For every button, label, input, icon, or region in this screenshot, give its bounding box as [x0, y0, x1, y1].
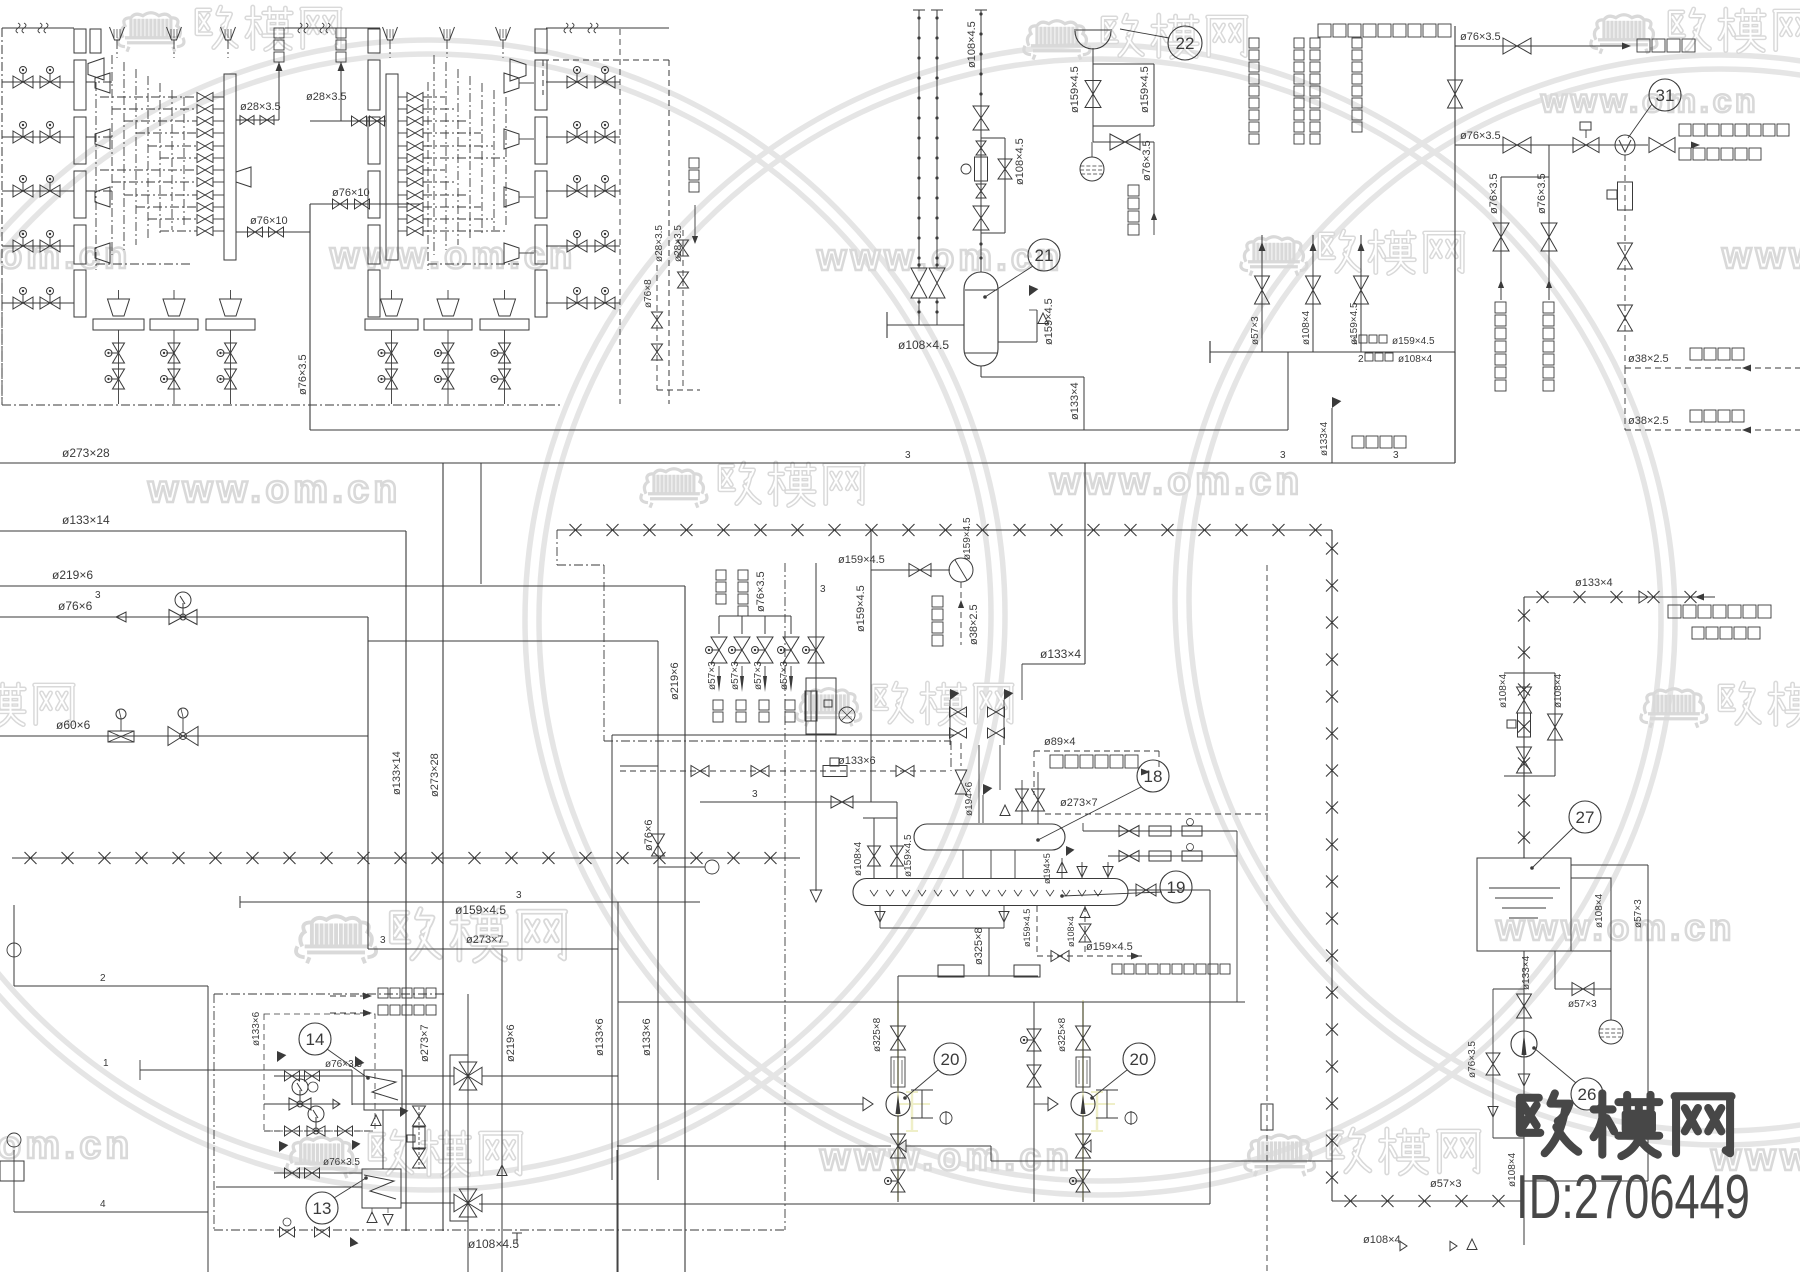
block B dashed border	[668, 60, 670, 404]
circle 20a	[934, 1043, 966, 1075]
svg-text:www.om.cn: www.om.cn	[1049, 460, 1303, 503]
svg-text:ø159×4.5: ø159×4.5	[455, 903, 506, 917]
273x7 dashed	[1045, 813, 1268, 815]
block B funnels	[510, 59, 526, 81]
pump1	[886, 1092, 910, 1116]
circle 21	[1028, 239, 1060, 271]
svg-text:3: 3	[1280, 450, 1286, 461]
bottom dashed row	[280, 1227, 295, 1237]
pump2 tee	[1106, 1090, 1108, 1118]
block A inner header bar 2	[90, 29, 101, 53]
fourway valves	[454, 1062, 482, 1090]
svg-text:ø57×3: ø57×3	[753, 661, 764, 690]
159x4.5 vertical	[870, 530, 872, 802]
line into pump discharge	[617, 1145, 891, 1147]
svg-text:18: 18	[1144, 767, 1163, 786]
hx18-hx19 connectors	[962, 850, 964, 879]
xline y858	[12, 857, 800, 859]
pump2 yellow lines	[1082, 1000, 1084, 1200]
heater 14 aux	[264, 1103, 340, 1105]
funnel between blocks	[236, 167, 251, 187]
line 76x6	[0, 616, 368, 618]
svg-text:3: 3	[820, 584, 826, 595]
svg-text:ø38×2.5: ø38×2.5	[968, 604, 980, 645]
svg-text:13: 13	[313, 1199, 332, 1218]
svg-text:3: 3	[380, 935, 386, 946]
line 133x14	[0, 530, 406, 532]
fuel oil tracing line	[1455, 144, 1648, 146]
svg-text:19: 19	[1167, 878, 1186, 897]
to expander arrows	[363, 993, 372, 1000]
dome 22	[1074, 30, 1112, 49]
svg-text:ø133×4: ø133×4	[1040, 647, 1081, 661]
svg-text:ø38×2.5: ø38×2.5	[1628, 415, 1669, 427]
circle 20b	[1123, 1043, 1155, 1075]
svg-text:ø108×4: ø108×4	[853, 841, 864, 876]
svg-text:ø57×3: ø57×3	[707, 661, 718, 690]
line 2	[14, 985, 208, 987]
svg-text:ø219×6: ø219×6	[669, 662, 681, 700]
svg-text:ø108×4: ø108×4	[1363, 1234, 1401, 1246]
svg-text:ø108×4: ø108×4	[1498, 673, 1509, 708]
tank 27	[1477, 858, 1571, 951]
svg-text:ø194×5: ø194×5	[1042, 853, 1052, 884]
svg-text:ø133×4: ø133×4	[1521, 955, 1532, 990]
circle 19	[1160, 871, 1192, 903]
heater 13	[362, 1169, 401, 1208]
between-heater valve train	[418, 1107, 420, 1169]
svg-text:ø108×4.5: ø108×4.5	[1014, 138, 1026, 185]
svg-text:ø38×2.5: ø38×2.5	[1628, 353, 1669, 365]
riser labels	[1249, 38, 1259, 48]
block B right header bars	[535, 29, 547, 53]
block A left valve rows	[2, 81, 74, 83]
svg-text:ø159×4.5: ø159×4.5	[962, 517, 973, 560]
svg-text:3: 3	[516, 890, 522, 901]
line 273x28	[0, 462, 443, 464]
inter-block pipe w valves	[236, 231, 310, 233]
circle 22	[1168, 26, 1202, 60]
right main vertical	[1454, 26, 1456, 463]
svg-text:1: 1	[1352, 336, 1358, 347]
line 273x7 mid	[368, 948, 618, 950]
svg-text:ø76×3.5: ø76×3.5	[1460, 31, 1501, 43]
block B inner dashed vertical	[619, 29, 621, 404]
tank drain	[1523, 951, 1525, 1245]
pump discharge cross line	[906, 1145, 991, 1147]
svg-text:ø108×4.5: ø108×4.5	[966, 21, 978, 68]
svg-text:ø108×4.5: ø108×4.5	[898, 338, 949, 352]
svg-text:www.om.cn: www.om.cn	[1495, 907, 1735, 948]
svg-text:ø76×6: ø76×6	[643, 820, 655, 852]
svg-text:21: 21	[1035, 246, 1054, 265]
svg-text:ID:2706449: ID:2706449	[1516, 1162, 1750, 1232]
svg-text:ø76×6: ø76×6	[58, 599, 93, 613]
svg-text:ø108×4: ø108×4	[1301, 310, 1312, 345]
svg-text:ø159×4.5: ø159×4.5	[1022, 909, 1032, 947]
block B right small piping	[694, 205, 696, 236]
xline y1201	[1332, 1200, 1523, 1202]
svg-text:ø57×3: ø57×3	[779, 661, 790, 690]
hx18 flag	[983, 784, 992, 795]
valve loop on riser	[1523, 664, 1525, 673]
vertical 219x6 lower	[501, 949, 503, 1272]
svg-text:ø273×28: ø273×28	[429, 753, 441, 797]
svg-text:4: 4	[100, 1199, 106, 1210]
pump1 yellow lines	[897, 1000, 899, 1200]
block B right valve rows	[546, 81, 620, 83]
svg-text:ø133×4: ø133×4	[1319, 421, 1330, 456]
svg-text:ø133×4: ø133×4	[1575, 577, 1613, 589]
control valve 31	[1615, 135, 1635, 155]
hx19 right outlet	[1128, 889, 1210, 891]
svg-text:ø76×3.5: ø76×3.5	[755, 571, 767, 612]
svg-text:ø57×3: ø57×3	[730, 661, 741, 690]
block A header bars	[74, 29, 86, 53]
svg-text:ø76×3.5: ø76×3.5	[297, 354, 309, 395]
line 60x6	[0, 735, 368, 737]
svg-text:ø273×7: ø273×7	[419, 1024, 431, 1062]
block A valve column	[197, 93, 213, 102]
svg-text:ø76×3.5: ø76×3.5	[323, 1157, 360, 1168]
svg-text:www.om.cn: www.om.cn	[819, 1136, 1073, 1179]
svg-text:ø219×6: ø219×6	[505, 1024, 517, 1062]
svg-text:ø133×6: ø133×6	[594, 1018, 606, 1056]
svg-text:ø108×4: ø108×4	[1553, 673, 1564, 708]
cluster bowties to hx18	[950, 707, 967, 717]
svg-text:3: 3	[752, 789, 758, 800]
block A tall header bar	[224, 74, 236, 260]
atomizing steam dashed branch	[1624, 155, 1626, 368]
unit manifold	[1210, 351, 1455, 353]
left small box	[0, 1161, 24, 1181]
block A dashed border	[1, 28, 3, 404]
svg-text:ø325×8: ø325×8	[973, 927, 985, 965]
block A top header line	[2, 27, 74, 29]
vessel 21 inlet	[886, 312, 888, 338]
mill dashed enclosure	[556, 530, 558, 565]
bypass tall rect	[450, 1055, 468, 1221]
heater inner dashed box	[264, 1014, 375, 1131]
svg-text:ø57×3: ø57×3	[1430, 1178, 1462, 1190]
tank 27b	[1571, 878, 1611, 951]
heater dashed enclosure	[214, 993, 445, 995]
svg-text:3: 3	[1393, 450, 1399, 461]
hx19 vessel	[853, 879, 1128, 906]
svg-text:ø159×4.5: ø159×4.5	[1086, 941, 1133, 953]
dashed vertical 1267	[1266, 565, 1268, 1272]
xline right 133x4	[1524, 596, 1715, 598]
mid dashed row	[264, 1130, 371, 1132]
svg-text:ø273×7: ø273×7	[466, 934, 504, 946]
vert x617	[616, 1150, 618, 1272]
circle 14	[299, 1023, 331, 1055]
drain valve stack 108x4	[1084, 906, 1086, 956]
line 1	[140, 1069, 352, 1071]
xline chem to tank	[1523, 858, 1525, 951]
svg-text:2: 2	[1358, 354, 1364, 365]
condensate valve line	[871, 569, 950, 571]
block A bottom dash line	[2, 404, 560, 406]
circle 27	[1569, 801, 1601, 833]
tank right pipes	[1571, 864, 1648, 866]
loop 22 piping	[1092, 48, 1094, 64]
big logo text	[1520, 1093, 1732, 1156]
dotted standpipe 1	[918, 10, 920, 262]
xline y530	[557, 529, 1332, 531]
pump discharge header	[479, 1203, 1210, 1205]
third extraction	[1287, 352, 1289, 430]
svg-text:ø76×3.5: ø76×3.5	[1467, 1041, 1478, 1078]
svg-text:ø325×8: ø325×8	[1057, 1017, 1068, 1052]
svg-text:ø76×3.5: ø76×3.5	[1536, 173, 1548, 214]
svg-text:ø194×6: ø194×6	[964, 781, 975, 816]
block B tall header bar	[386, 74, 398, 260]
svg-text:ø76×3.5: ø76×3.5	[1488, 173, 1500, 214]
svg-text:ø133×6: ø133×6	[251, 1011, 262, 1046]
pump 26	[1511, 1031, 1537, 1057]
chem steam text	[1318, 24, 1331, 37]
block B dash-dot mesh	[433, 55, 435, 255]
hx18 vessel	[914, 824, 1065, 850]
svg-text:2: 2	[100, 973, 106, 984]
svg-text:ø159×4.5: ø159×4.5	[855, 585, 867, 632]
svg-text:22: 22	[1176, 34, 1195, 53]
svg-text:ø133×14: ø133×14	[62, 513, 110, 527]
block A second drain	[340, 62, 342, 121]
vertical valve on header	[1448, 80, 1463, 108]
hx19 drains	[879, 906, 881, 928]
svg-text:ø76×8: ø76×8	[643, 279, 654, 308]
block A top cups	[110, 27, 125, 40]
svg-text:20: 20	[1130, 1050, 1149, 1069]
valve 57x3	[1555, 988, 1611, 990]
svg-text:www.om.cn: www.om.cn	[1721, 235, 1800, 277]
block A bottom manifolds	[93, 319, 144, 330]
condensate from label	[960, 582, 962, 645]
circle 26	[1571, 1078, 1603, 1110]
mill steam manifold	[716, 570, 726, 580]
block B header bars	[368, 29, 380, 53]
svg-text:20: 20	[941, 1050, 960, 1069]
ball float	[1080, 157, 1104, 181]
svg-text:26: 26	[1578, 1085, 1597, 1104]
block B top cups	[383, 27, 398, 40]
svg-text:ø108×4: ø108×4	[1066, 916, 1076, 947]
svg-text:ø28×3.5: ø28×3.5	[306, 91, 347, 103]
svg-text:ø159×4.5: ø159×4.5	[838, 554, 885, 566]
svg-text:ø28×3.5: ø28×3.5	[654, 225, 665, 262]
coal mill	[806, 678, 836, 734]
heater 13 drains	[367, 1212, 377, 1223]
solid line y735	[612, 734, 955, 736]
circle 18	[1137, 760, 1169, 792]
block B bottom manifolds	[365, 319, 418, 330]
bypass left	[1493, 988, 1524, 990]
svg-text:3: 3	[905, 450, 911, 461]
pump1 discharge	[897, 1116, 899, 1202]
svg-text:ø57×3: ø57×3	[1568, 999, 1597, 1010]
svg-text:ø57×3: ø57×3	[1250, 316, 1261, 345]
bottom small tris	[1400, 1241, 1407, 1250]
risers	[1261, 235, 1263, 352]
block A funnels	[88, 58, 104, 80]
watermark logos	[118, 13, 184, 52]
pump2 feed	[1082, 1002, 1084, 1091]
watermark circles	[0, 40, 1005, 1190]
svg-text:ø76×3.5: ø76×3.5	[1141, 140, 1153, 181]
svg-text:ø273×28: ø273×28	[62, 446, 110, 460]
dotted standpipe 2	[936, 10, 938, 262]
pipe 76x3.5 down-right	[309, 204, 311, 430]
hx18 right rows	[1083, 830, 1237, 832]
heater13 lower inlet line	[216, 1186, 362, 1188]
vessel 21 drain	[980, 366, 982, 377]
svg-text:www.om.cn: www.om.cn	[147, 468, 401, 511]
fire steam small	[657, 766, 659, 900]
ball float right	[1599, 1020, 1623, 1044]
svg-text:ø108×4: ø108×4	[1398, 354, 1433, 365]
condensate dashed line	[1624, 368, 1626, 430]
heater 13 inlet	[274, 1172, 362, 1174]
svg-text:ø28×3.5: ø28×3.5	[240, 101, 281, 113]
svg-text:ø89×4: ø89×4	[1044, 736, 1076, 748]
svg-text:ø273×7: ø273×7	[1060, 797, 1098, 809]
svg-text:ø325×8: ø325×8	[872, 1017, 883, 1052]
block A dash-dot mesh	[111, 55, 113, 255]
line 4	[14, 1211, 208, 1213]
svg-text:ø159×4.5: ø159×4.5	[1392, 336, 1435, 347]
hx18 pre valves	[1016, 789, 1029, 811]
circle 13	[306, 1192, 338, 1224]
block A drain line to right	[236, 119, 279, 121]
svg-text:ø133×14: ø133×14	[391, 751, 403, 795]
svg-text:ø60×6: ø60×6	[56, 718, 91, 732]
block B top header line	[285, 27, 380, 29]
vessel 21	[964, 272, 998, 366]
svg-text:3: 3	[95, 590, 101, 601]
svg-text:www.om.cn: www.om.cn	[0, 235, 131, 277]
xvert x1524	[1523, 597, 1525, 858]
svg-text:ø57×3: ø57×3	[1633, 899, 1644, 928]
double isolation valves	[911, 268, 927, 298]
svg-text:27: 27	[1576, 808, 1595, 827]
svg-text:31: 31	[1656, 86, 1675, 105]
pump1 feed	[897, 976, 899, 1091]
svg-text:ø219×6: ø219×6	[52, 568, 93, 582]
svg-text:www.om.cn: www.om.cn	[816, 237, 1063, 279]
hx18 feed valves	[620, 770, 947, 772]
svg-text:ø76×10: ø76×10	[250, 215, 288, 227]
HVAC steam line	[1455, 45, 1624, 47]
svg-text:ø159×4.5: ø159×4.5	[1043, 298, 1055, 345]
svg-text:ø108×4: ø108×4	[1594, 893, 1605, 928]
standpipe valve column	[980, 10, 982, 272]
xvert x1332	[1331, 530, 1333, 1201]
svg-text:ø159×4.5: ø159×4.5	[903, 834, 914, 877]
line 219x6	[0, 585, 685, 587]
line 1181	[1523, 1180, 1648, 1182]
block B valve column	[407, 93, 423, 102]
valve to circ water	[1092, 126, 1094, 142]
vessel 21 right flag	[998, 341, 1037, 343]
hvac drain dashed box	[1034, 750, 1159, 752]
pump2	[1071, 1092, 1095, 1116]
svg-text:www.om.cn: www.om.cn	[329, 235, 576, 277]
svg-text:ø133×4: ø133×4	[1069, 382, 1081, 420]
svg-text:www.om.cn: www.om.cn	[1540, 83, 1759, 120]
T mark	[516, 1233, 518, 1243]
relief pair	[955, 782, 966, 794]
circ water label	[1153, 142, 1155, 235]
bypass branch 108x4.5	[1004, 138, 1006, 233]
svg-text:ø76×10: ø76×10	[332, 187, 370, 199]
svg-text:14: 14	[306, 1030, 325, 1049]
gate valve with top	[1573, 138, 1599, 153]
pump2 discharge	[1082, 1116, 1084, 1202]
svg-text:ø159×4.5: ø159×4.5	[1069, 66, 1081, 113]
svg-text:ø159×4.5: ø159×4.5	[1139, 66, 1151, 113]
reheat cold branch	[1548, 145, 1550, 177]
pump1 tee	[921, 1090, 923, 1118]
mid valve column	[1033, 1002, 1035, 1202]
heater 14	[364, 1070, 402, 1110]
svg-text:1: 1	[103, 1058, 109, 1069]
svg-text:ø108×4.5: ø108×4.5	[468, 1237, 519, 1251]
svg-text:ø76×3.5: ø76×3.5	[1460, 130, 1501, 142]
demin water dashed line	[1625, 367, 1800, 369]
to expander line	[1037, 955, 1142, 957]
circle 31	[1649, 79, 1681, 111]
heater 14 inlet	[274, 1075, 364, 1077]
block B top line right	[546, 27, 669, 29]
mill line 3	[815, 563, 817, 806]
svg-text:ø133×6: ø133×6	[641, 1018, 653, 1056]
